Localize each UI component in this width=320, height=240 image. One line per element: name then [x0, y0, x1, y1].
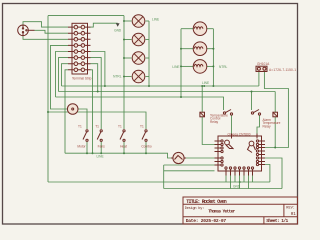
switch bottom wires: [86, 142, 88, 154]
wire row8 right down to bus: [91, 70, 93, 153]
heater left vertical: [180, 29, 182, 97]
svg-text:Relay: Relay: [210, 120, 219, 124]
svg-text:Motor: Motor: [77, 145, 86, 149]
lamp L4: [132, 70, 145, 83]
wire bottom run A: [48, 181, 270, 183]
svg-text:Fans: Fans: [98, 145, 105, 149]
svg-text:Sheet: 1/1: Sheet: 1/1: [266, 218, 288, 224]
svg-text:LINE: LINE: [152, 18, 159, 22]
wire right relay box top: [274, 92, 276, 113]
right pins: [256, 140, 265, 166]
svg-text:Heat: Heat: [120, 145, 127, 149]
wire right relay box bottom: [274, 117, 276, 148]
heater H1: [193, 22, 207, 36]
svg-text:LINE: LINE: [172, 65, 179, 69]
wire strip row8 to switch bus: [65, 70, 68, 153]
svg-text:NTRL: NTRL: [113, 75, 122, 79]
svg-text:T1: T1: [78, 125, 82, 129]
switch Fans: [95, 125, 105, 149]
heater stubs: [181, 28, 193, 30]
AC source: [171, 152, 186, 163]
wire lamp right vertical: [148, 21, 150, 86]
relay contact K2: [251, 110, 280, 129]
wire bottom run B: [164, 188, 282, 190]
relay contact K1: [210, 110, 233, 124]
lamp stubs: [124, 20, 132, 22]
internal symbol right: [248, 141, 256, 152]
svg-text:LINE: LINE: [202, 81, 209, 85]
wire line3: [56, 97, 224, 110]
heater H3: [193, 60, 207, 74]
svg-text:Terminal Strip: Terminal Strip: [72, 77, 92, 81]
wire row6 right to fans switch: [91, 58, 102, 129]
svg-text:Thomas Yetter: Thomas Yetter: [208, 210, 235, 215]
wire GH101A right pin loop: [264, 72, 288, 148]
svg-text:GH101A: GH101A: [257, 62, 270, 66]
wire relay2 left term from line2: [251, 92, 253, 111]
switch Motor: [77, 125, 88, 149]
wire lamp feed vertical: [123, 16, 125, 129]
relay box right: [273, 112, 278, 117]
bottom pins: [225, 167, 254, 176]
terminal strip TS1: [68, 23, 92, 80]
IC Omega CN7800: [215, 132, 266, 175]
wire row1 right to flag: [91, 23, 118, 27]
switch Combo: [140, 125, 152, 149]
wire left relay box top: [201, 86, 203, 112]
flag at row1 net: [114, 23, 122, 32]
relay box left: [200, 112, 205, 117]
wire AC right to IC: [186, 157, 215, 159]
IC bottom pin wires: [225, 176, 227, 183]
svg-text:NTRL: NTRL: [219, 65, 228, 69]
wire connector bottom to strip row3: [23, 36, 68, 40]
wire GH101A left pin down to line1: [258, 72, 260, 87]
lamp L3: [132, 52, 145, 65]
svg-text:Design by:: Design by:: [185, 206, 205, 211]
lamp L1: [132, 15, 145, 28]
svg-text:TITLE: Rocket Oven: TITLE: Rocket Oven: [186, 199, 227, 205]
connector J1: [18, 25, 35, 36]
svg-text:T1: T1: [95, 125, 99, 129]
svg-text:Relay: Relay: [263, 124, 272, 128]
wire row5 right down: [91, 52, 105, 87]
wire connector top to strip row1: [23, 22, 68, 27]
svg-text:GND: GND: [114, 29, 122, 33]
top pins: [232, 134, 258, 139]
wire line2: [59, 91, 276, 93]
wire strip row7 to line1: [62, 64, 69, 86]
wire strip row6 to line2: [59, 58, 69, 92]
svg-text:A=1726-7-1150-1: A=1726-7-1150-1: [269, 68, 296, 72]
svg-text:Combo: Combo: [141, 145, 152, 149]
wire strip row5 to line3: [56, 52, 69, 98]
heater H2: [193, 42, 207, 56]
wire strip row4 to buzzer: [51, 45, 69, 109]
svg-text:T1: T1: [140, 125, 144, 129]
wire connector right to strip row2: [35, 30, 69, 33]
wire under-IC left loop: [164, 164, 215, 166]
junction dots: [123, 20, 125, 22]
internal symbol left: [225, 140, 234, 149]
svg-text:Omega CN7800: Omega CN7800: [227, 132, 250, 136]
svg-text:01: 01: [291, 213, 296, 217]
buzzer BZ1: [67, 104, 78, 115]
title block: [183, 197, 298, 224]
wire relay1 right term to IC top: [231, 116, 233, 134]
svg-text:LINE: LINE: [97, 155, 104, 159]
svg-text:REV:: REV:: [286, 207, 295, 211]
wire relay2 right term to IC top: [257, 116, 260, 134]
wire left relay box bottom to IC: [202, 117, 214, 145]
lamp L2: [132, 33, 145, 46]
svg-text:Date: 2025-02-07: Date: 2025-02-07: [186, 218, 227, 224]
GH101A terminal: [256, 62, 296, 72]
svg-text:T1: T1: [118, 125, 122, 129]
wire line1: [62, 85, 259, 87]
wire top run: [48, 15, 124, 17]
left pins: [215, 140, 224, 166]
wire row7 right down: [91, 64, 98, 92]
wire buzzer right to motor switch: [78, 109, 87, 129]
heater right vertical: [212, 29, 214, 86]
wire under-IC lower: [164, 170, 215, 172]
wire left vertical to combo: [47, 16, 49, 182]
switch Heat: [118, 125, 127, 149]
wire switch bus: [65, 153, 171, 158]
